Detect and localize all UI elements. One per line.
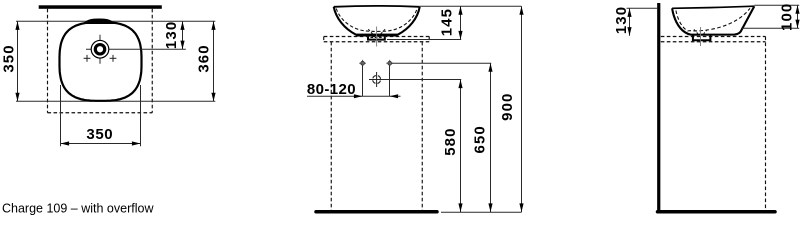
svg-text:80-120: 80-120: [307, 81, 356, 98]
svg-text:145: 145: [439, 8, 456, 36]
svg-text:350: 350: [86, 126, 113, 143]
svg-text:900: 900: [499, 93, 516, 121]
svg-text:Charge 109 – with overflow: Charge 109 – with overflow: [2, 202, 154, 216]
svg-text:130: 130: [163, 21, 180, 49]
svg-text:580: 580: [442, 127, 459, 155]
svg-text:100: 100: [779, 3, 796, 31]
svg-text:350: 350: [1, 44, 18, 72]
svg-text:650: 650: [472, 125, 489, 153]
svg-text:360: 360: [196, 44, 213, 72]
svg-text:130: 130: [613, 6, 630, 34]
